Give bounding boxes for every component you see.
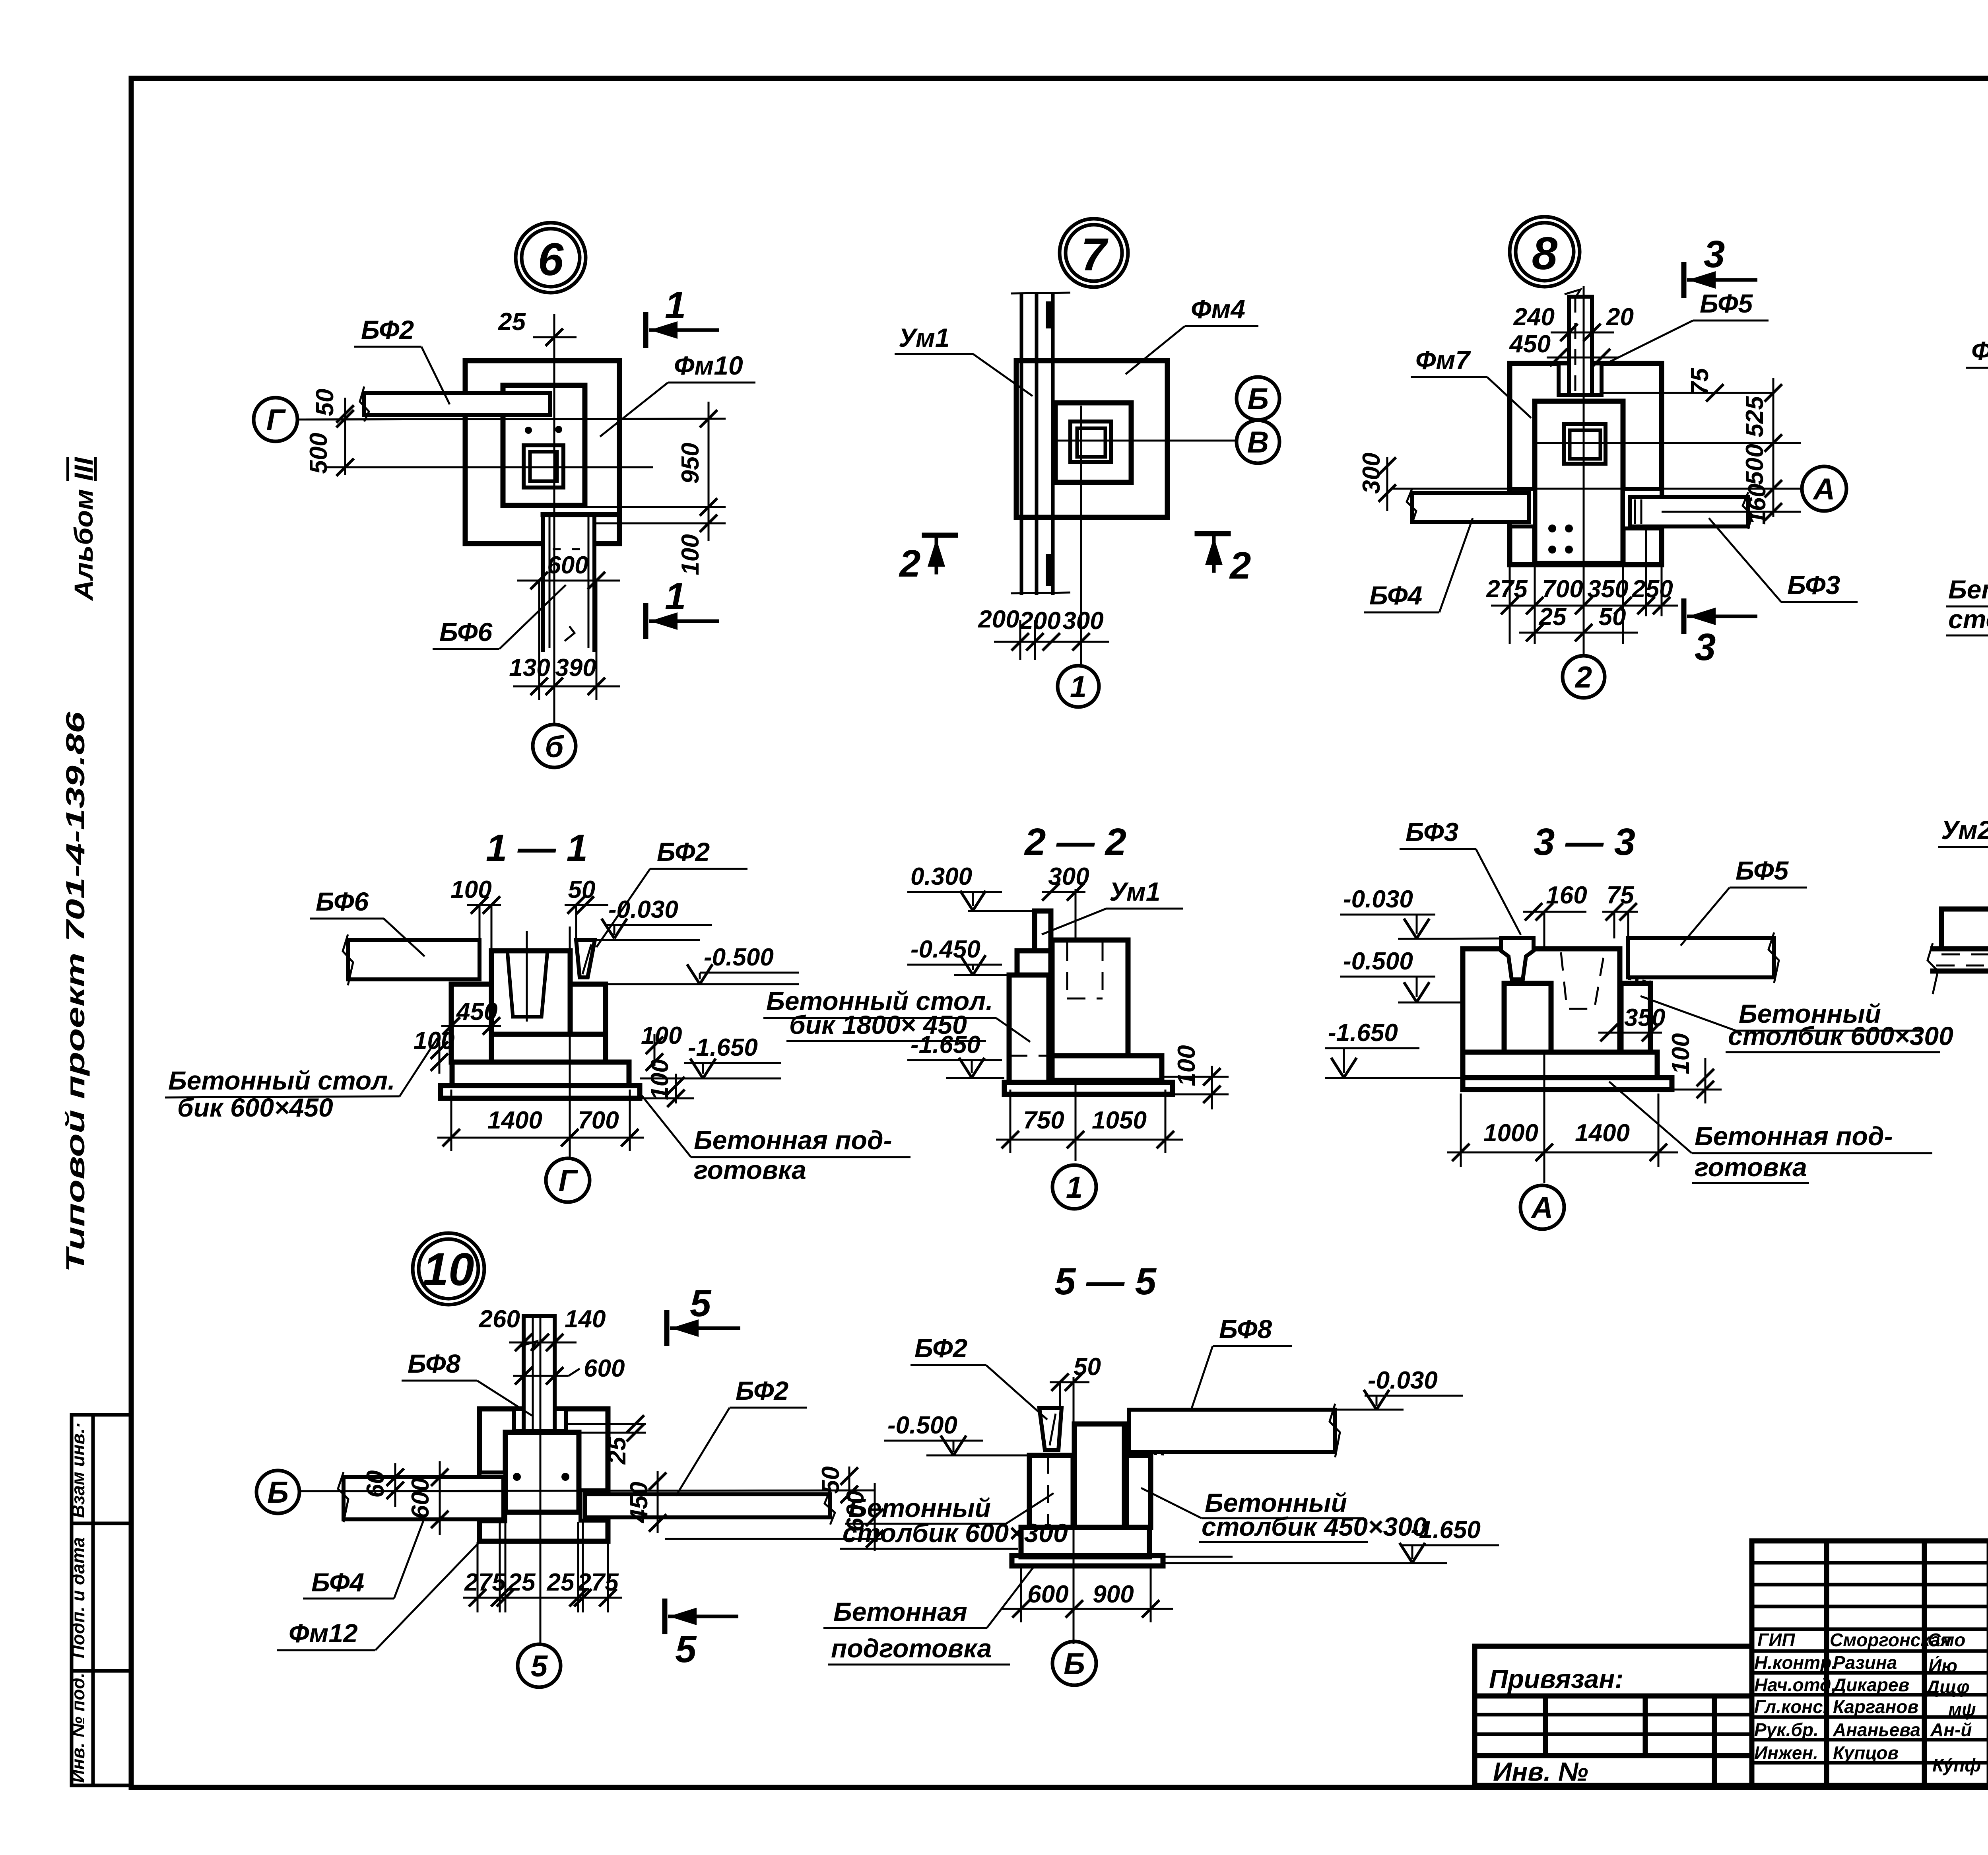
svg-text:700: 700: [1542, 575, 1583, 603]
horizontal axis line В: [1055, 440, 1237, 442]
svg-text:Взам инв.·: Взам инв.·: [68, 1422, 88, 1518]
elevation -1.650 right: [1163, 1516, 1499, 1563]
dashed level in столбик: [1009, 1055, 1052, 1057]
label БФ6: [433, 585, 566, 649]
svg-text:50: 50: [1599, 603, 1626, 631]
svg-text:Бетонный стол.: Бетонный стол.: [168, 1066, 395, 1095]
label Бетонный столбик 600x300 left: [840, 1493, 1068, 1549]
svg-text:1: 1: [665, 575, 686, 618]
svg-text:275: 275: [1486, 575, 1528, 603]
right slot + beam БФ3: [1623, 489, 1752, 529]
label Бетонная подготовка (right): [640, 1094, 911, 1185]
axis circle 1 bottom: [1052, 1165, 1096, 1209]
svg-text:300: 300: [1062, 607, 1103, 635]
svg-text:-0.030: -0.030: [1343, 886, 1413, 913]
Ум2 slab band (450): [1941, 903, 1988, 954]
axis circle А bottom: [1520, 1185, 1564, 1229]
svg-text:25: 25: [547, 1569, 575, 1596]
right slot + beam БФ2: [580, 1490, 835, 1525]
svg-text:Фм4: Фм4: [1191, 294, 1245, 324]
bottom dims 600 900: [1002, 1567, 1173, 1622]
svg-text:Бетонный: Бетонный: [1948, 575, 1988, 604]
svg-text:Фм12: Фм12: [289, 1618, 358, 1648]
svg-text:столбик 450×300: столбик 450×300: [1202, 1512, 1427, 1541]
anchor bolts 4x: [1548, 524, 1573, 554]
svg-text:600: 600: [1027, 1581, 1068, 1608]
svg-text:525: 525: [1741, 396, 1769, 437]
dim 100 right pair: [640, 1022, 694, 1107]
svg-text:БФ6: БФ6: [439, 617, 493, 647]
svg-text:3 — 3: 3 — 3: [1534, 821, 1635, 863]
bottom dims 275 25 25 275: [463, 1522, 622, 1612]
elevation -0.500: [1340, 948, 1463, 1002]
section mark 5 top right: [667, 1282, 740, 1346]
svg-text:100: 100: [1173, 1045, 1200, 1086]
inner pedestal: [1535, 401, 1623, 563]
svg-text:1400: 1400: [1575, 1119, 1630, 1147]
bottom dims 1400 700: [437, 1090, 644, 1151]
dim 60 left: [362, 1463, 404, 1507]
svg-text:Дщφ: Дщφ: [1925, 1676, 1970, 1697]
svg-text:2 — 2: 2 — 2: [1024, 821, 1126, 863]
svg-text:-0.500: -0.500: [1343, 948, 1413, 975]
foundation Фм4 slab: [1016, 361, 1167, 517]
section mark 1 top right: [646, 284, 719, 348]
foundation big block: [1463, 949, 1620, 1052]
label Бетонная подготовка bottom: [1609, 1082, 1932, 1183]
svg-text:БФ2: БФ2: [361, 315, 414, 344]
svg-text:Ум2: Ум2: [1941, 815, 1988, 845]
elevation -1.650: [1325, 1019, 1463, 1078]
left slot + beam БФ4: [338, 1472, 505, 1522]
svg-text:750: 750: [1023, 1107, 1064, 1134]
left margin small table (Взам инв / Подп и дата / Инв № под): [68, 1415, 131, 1785]
bedding slab: [1004, 1082, 1173, 1094]
left dim 300: [1358, 453, 1396, 511]
axis vertical А: [1543, 927, 1545, 1183]
svg-text:БФ8: БФ8: [408, 1349, 461, 1378]
svg-text:мψ: мψ: [1948, 1699, 1976, 1720]
svg-text:БФ2: БФ2: [657, 837, 710, 866]
dim 50 top: [1050, 1353, 1101, 1408]
svg-text:130: 130: [509, 654, 550, 682]
label Фм10: [600, 351, 755, 437]
svg-text:БФ5: БФ5: [1736, 856, 1789, 885]
svg-text:1: 1: [1070, 670, 1087, 704]
foundation Фм10 inner step: [503, 385, 585, 505]
node circle 10: [413, 1233, 484, 1305]
svg-text:2: 2: [1574, 660, 1592, 694]
svg-text:1050: 1050: [1092, 1107, 1147, 1134]
section mark 5 bottom right: [665, 1599, 738, 1670]
elevation -0.030: [595, 896, 712, 940]
svg-text:Купцов: Купцов: [1833, 1742, 1899, 1763]
label БФ4: [1364, 518, 1473, 612]
axis line Г vertical: [569, 927, 571, 1158]
label Бетонный столбик 1800x450: [763, 986, 1030, 1042]
label БФ4 bottom left: [303, 1521, 423, 1599]
body band below: [491, 1034, 606, 1062]
svg-text:600: 600: [584, 1355, 625, 1382]
svg-text:1000: 1000: [1483, 1119, 1538, 1147]
label БФ5: [1681, 856, 1807, 946]
label БФ3: [1400, 817, 1521, 935]
dim 25 right top: [566, 1415, 646, 1465]
axis circle А: [1802, 466, 1846, 511]
svg-text:700: 700: [578, 1107, 619, 1134]
dim 160: [1523, 882, 1587, 938]
small столбик under БФ3: [1504, 983, 1551, 1052]
svg-text:200: 200: [1019, 607, 1060, 635]
svg-text:Привязан:: Привязан:: [1489, 1664, 1623, 1694]
svg-text:б: б: [545, 730, 564, 764]
svg-text:БФ2: БФ2: [914, 1333, 968, 1363]
svg-text:1 — 1: 1 — 1: [486, 827, 588, 869]
label Фм4: [1126, 294, 1258, 374]
svg-text:600: 600: [547, 552, 588, 579]
label Фм1: [1966, 336, 1988, 410]
svg-text:Карганов: Карганов: [1833, 1696, 1918, 1717]
label Фм12: [277, 1542, 480, 1650]
label БФ5: [1602, 289, 1769, 366]
svg-text:столбик 600×300: столбик 600×300: [843, 1518, 1068, 1548]
axis circle Б left: [256, 1470, 299, 1513]
svg-text:В: В: [1247, 425, 1269, 459]
vertical axis 2: [1583, 286, 1585, 654]
svg-text:3: 3: [1704, 233, 1725, 276]
elevation 0.300: [907, 863, 1035, 911]
left margin rotated text: Типовой проект 701-4-139.86: [60, 711, 90, 1272]
svg-text:-0.030: -0.030: [1368, 1367, 1438, 1394]
svg-text:Ку́пф: Ку́пф: [1932, 1755, 1981, 1775]
dim 100 left: [414, 1027, 454, 1074]
title block: Привязан box: [1475, 1646, 1752, 1786]
top slot for beam БФ5: [1559, 363, 1602, 395]
lower band (300) with dashed lines: [1928, 943, 1988, 994]
svg-text:Альбом III: Альбом III: [69, 456, 98, 601]
dim 600 below foundation: [517, 552, 620, 589]
svg-text:25: 25: [498, 308, 526, 336]
right столбик 450x300: [1126, 1455, 1151, 1527]
dim 450: [441, 998, 501, 1035]
svg-text:БФ6: БФ6: [316, 887, 369, 916]
foundation Фм12 outer: [480, 1409, 608, 1541]
axis circle В: [1237, 420, 1279, 463]
beam БФ2 entering from left: [360, 387, 550, 422]
svg-text:20: 20: [1606, 303, 1634, 331]
inner step: [1055, 403, 1131, 482]
wall Ум1 stepped profile: [1017, 911, 1051, 975]
horizontal axis Б: [300, 1490, 875, 1491]
svg-text:6: 6: [538, 233, 564, 285]
svg-text:-0.030: -0.030: [608, 896, 678, 923]
svg-text:60: 60: [362, 1470, 389, 1498]
svg-text:Дикарев: Дикарев: [1831, 1674, 1909, 1695]
left dims 50 / 500: [305, 389, 653, 476]
column double square: [1070, 422, 1111, 462]
elevation -0.030: [1340, 886, 1503, 939]
svg-text:-1.650: -1.650: [1328, 1019, 1398, 1047]
svg-text:100: 100: [414, 1027, 454, 1055]
base slab: [452, 1062, 629, 1086]
svg-text:Г: Г: [559, 1164, 579, 1198]
label БФ2: [676, 1376, 807, 1496]
dim 600 left rotated: [407, 1461, 448, 1535]
node circle 7: [1060, 219, 1128, 287]
svg-text:бик 600×450: бик 600×450: [177, 1093, 333, 1122]
dim 350: [1598, 1004, 1665, 1041]
title block: signature table: [1752, 1541, 1988, 1785]
label БФ2: [354, 315, 450, 404]
label Ум1: [895, 323, 1033, 396]
svg-text:5: 5: [531, 1649, 548, 1683]
svg-text:столбик 450×300: столбик 450×300: [1948, 604, 1988, 634]
inner pedestal: [505, 1432, 579, 1512]
svg-text:А: А: [1813, 472, 1835, 506]
label Бетонный столбик 600x300: [1640, 996, 1953, 1052]
column double square: [1564, 424, 1606, 464]
svg-text:140: 140: [565, 1305, 606, 1333]
svg-text:БФ2: БФ2: [736, 1376, 789, 1405]
svg-text:Б: Б: [1064, 1647, 1085, 1681]
svg-text:Инв. № под.: Инв. № под.: [68, 1672, 88, 1783]
axis vertical 1: [1075, 889, 1077, 1161]
foundation Фм10 outer slab: [465, 361, 619, 544]
svg-text:10: 10: [423, 1243, 474, 1295]
svg-text:Бетонная: Бетонная: [833, 1597, 967, 1626]
svg-text:БФ8: БФ8: [1219, 1314, 1272, 1344]
svg-text:Разина: Разина: [1833, 1652, 1897, 1673]
БФ3 stub on top: [1501, 938, 1534, 979]
svg-text:Б: Б: [1247, 382, 1269, 416]
anchor bolts: [525, 427, 532, 434]
svg-text:готовка: готовка: [1695, 1152, 1807, 1182]
svg-text:3: 3: [1695, 626, 1716, 668]
vertical axis line 1: [1080, 406, 1082, 666]
svg-text:Инжен.: Инжен.: [1754, 1742, 1818, 1763]
elevation -1.650: [907, 1031, 1004, 1078]
wall Ум1 vertical lines: [1011, 293, 1070, 593]
dim 300 top: [1042, 863, 1089, 901]
label Ум2: [1938, 815, 1988, 933]
svg-text:Фм7: Фм7: [1415, 345, 1471, 375]
axis circle 1 bottom: [1058, 666, 1099, 707]
right столбик 600x300: [1621, 983, 1650, 1052]
svg-text:200: 200: [978, 606, 1019, 633]
dim 50 top: [565, 876, 608, 940]
svg-text:-0.500: -0.500: [704, 944, 774, 971]
right столбик: [570, 984, 606, 1034]
svg-text:50: 50: [311, 389, 339, 416]
svg-text:0.300: 0.300: [911, 863, 972, 890]
svg-text:100: 100: [1667, 1033, 1695, 1074]
axis circle 5 bottom: [518, 1644, 561, 1687]
svg-text:Б: Б: [267, 1476, 289, 1509]
dims 130 390 at bottom: [509, 581, 620, 700]
elevation -0.030 right: [1272, 1367, 1463, 1410]
label Бетонный столбик 450×300: [1946, 535, 1988, 635]
label БФ2: [596, 837, 747, 947]
top dims 240 20 450: [1509, 303, 1634, 366]
dashed socket inside block: [1067, 942, 1103, 998]
dim 25 at top: [498, 308, 577, 346]
section mark 3 top right: [1684, 233, 1757, 298]
svg-text:500: 500: [1741, 444, 1769, 485]
axis circle б bottom: [533, 725, 576, 767]
bedding slab: [441, 1086, 640, 1098]
anchor bolts: [513, 1473, 521, 1481]
left столбик 600x300: [1029, 1455, 1073, 1527]
right dims 525 500 160: [1623, 378, 1801, 525]
svg-text:Фм10: Фм10: [674, 351, 743, 380]
bottom dims 750 1050: [996, 1090, 1183, 1153]
svg-text:5 — 5: 5 — 5: [1054, 1260, 1157, 1303]
svg-text:-0.500: -0.500: [887, 1412, 957, 1439]
label БФ8: [402, 1349, 532, 1416]
dims 200 200 300: [978, 606, 1109, 660]
БФ2 stub trapezoid: [1039, 1408, 1062, 1450]
svg-text:столбик 600×300: столбик 600×300: [1728, 1021, 1953, 1051]
label БФ2: [911, 1333, 1047, 1420]
svg-text:Ананьева: Ананьева: [1833, 1719, 1920, 1740]
dim 100 top: [450, 876, 501, 951]
svg-text:Фм1: Фм1: [1971, 336, 1988, 365]
dim 600: [513, 1355, 625, 1385]
БФ2 beam stub (trapezoid): [576, 940, 595, 977]
dim 75: [1602, 882, 1638, 938]
axis overlay lines view6: [553, 314, 555, 723]
dim 100 right: [1667, 1033, 1722, 1103]
label БФ6: [310, 887, 425, 956]
foundation Фм7 outer: [1510, 363, 1662, 565]
step notch line at foundation bottom: [543, 512, 619, 517]
bedding: [1463, 1078, 1672, 1090]
svg-text:Нач.отд.: Нач.отд.: [1754, 1674, 1836, 1695]
dims 50 600 at right end: [665, 1467, 883, 1551]
label Ум1: [1042, 877, 1183, 934]
svg-text:2: 2: [899, 542, 920, 585]
svg-text:600: 600: [407, 1478, 434, 1519]
svg-text:Г: Г: [266, 403, 286, 437]
node circle 6: [516, 223, 586, 293]
label Фм7: [1411, 345, 1531, 418]
svg-text:100: 100: [677, 534, 704, 575]
elevation -1.650: [640, 1034, 781, 1078]
svg-text:БФ4: БФ4: [311, 1568, 364, 1597]
beam БФ6 going down: [543, 515, 594, 652]
svg-text:450: 450: [456, 998, 497, 1026]
svg-text:Типовой проект 701-4-139.86: Типовой проект 701-4-139.86: [60, 711, 90, 1272]
left столбик 600x450: [451, 984, 491, 1062]
svg-text:450: 450: [625, 1482, 653, 1523]
svg-text:Рук.бр.: Рук.бр.: [1754, 1719, 1819, 1740]
axis circle Б: [1237, 377, 1279, 420]
svg-text:-1.650: -1.650: [688, 1034, 758, 1061]
dim 450 right rotated: [625, 1471, 666, 1533]
elevation -0.450: [907, 936, 1009, 975]
top slot: [514, 1409, 566, 1431]
vertical axis 5: [540, 1316, 542, 1644]
elevation -0.500: [606, 944, 799, 984]
dims 260 140 top: [479, 1305, 606, 1351]
base block: [1021, 1527, 1149, 1557]
label БФ8: [1191, 1314, 1292, 1411]
svg-text:А: А: [1531, 1191, 1553, 1225]
bedding slab: [1012, 1556, 1163, 1566]
section mark 1 bottom right: [646, 575, 719, 639]
dim 100 right: [1162, 1045, 1229, 1109]
label БФ3: [1709, 518, 1858, 602]
beam БФ5 right: [1628, 932, 1779, 983]
dashed socket: [1561, 952, 1604, 1009]
central pedestal: [1074, 1424, 1124, 1527]
svg-text:950: 950: [677, 443, 704, 484]
svg-text:БФ3: БФ3: [1406, 817, 1458, 847]
elevation -0.500 left: [884, 1412, 1029, 1455]
svg-text:БФ4: БФ4: [1369, 581, 1422, 610]
svg-text:240: 240: [1513, 303, 1555, 331]
left margin rotated text: Альбом III: [69, 456, 98, 601]
svg-text:450: 450: [1509, 330, 1551, 358]
beam БФ8 right: [1125, 1404, 1340, 1457]
svg-text:7: 7: [1081, 229, 1109, 280]
horizontal axis line Г: [297, 419, 726, 420]
svg-text:ГИП: ГИП: [1757, 1630, 1795, 1650]
axis circle Б bottom: [1052, 1641, 1096, 1685]
svg-text:Бетонная под-: Бетонная под-: [694, 1125, 892, 1155]
foundation block right: [1052, 940, 1162, 1080]
horizontal axis А: [1392, 488, 1801, 490]
svg-text:1: 1: [665, 284, 686, 326]
left slot + beam БФ4: [1407, 488, 1535, 526]
svg-text:готовка: готовка: [694, 1155, 806, 1185]
svg-text:260: 260: [479, 1305, 520, 1333]
svg-text:5: 5: [675, 1628, 697, 1670]
section mark 2 right: [1197, 534, 1251, 587]
axis circle 2 bottom: [1563, 656, 1605, 698]
label Бетонный столбик 600x450: [165, 1038, 437, 1122]
столбик 1800x450 left: [1009, 975, 1049, 1082]
bottom dims 275 700 350 250 / 25 50: [1486, 528, 1678, 644]
base slab: [1463, 1052, 1657, 1078]
axis circle Г: [254, 398, 297, 441]
svg-text:2: 2: [1229, 544, 1251, 587]
svg-text:Ан-й: Ан-й: [1930, 1719, 1972, 1740]
axis circle Г bottom: [546, 1158, 590, 1202]
node circle 8: [1510, 217, 1580, 287]
svg-text:160: 160: [1743, 484, 1771, 524]
svg-text:-0.450: -0.450: [911, 936, 980, 963]
beam БФ8 from top: [521, 1316, 555, 1431]
svg-text:БФ3: БФ3: [1787, 570, 1840, 600]
svg-text:50: 50: [817, 1467, 845, 1494]
svg-text:1: 1: [1066, 1171, 1083, 1204]
label Бетонный столбик 450x300 right: [1141, 1488, 1427, 1542]
svg-text:И́ю: И́ю: [1928, 1655, 1957, 1676]
beam БФ5 from top: [1565, 289, 1592, 395]
svg-text:Н.контр.: Н.контр.: [1754, 1652, 1837, 1673]
right dims 950 / 100: [585, 402, 726, 575]
section mark 2 left: [899, 535, 955, 585]
svg-text:подготовка: подготовка: [831, 1634, 992, 1663]
dim 75 right of beam: [1602, 367, 1773, 402]
svg-text:-1.650: -1.650: [911, 1031, 980, 1059]
column section double square: [524, 445, 563, 488]
vertical axis line б: [553, 314, 555, 723]
svg-text:Гл.конс.: Гл.конс.: [1754, 1696, 1828, 1717]
section mark 3 bottom right: [1684, 598, 1757, 668]
svg-text:350: 350: [1624, 1004, 1665, 1031]
